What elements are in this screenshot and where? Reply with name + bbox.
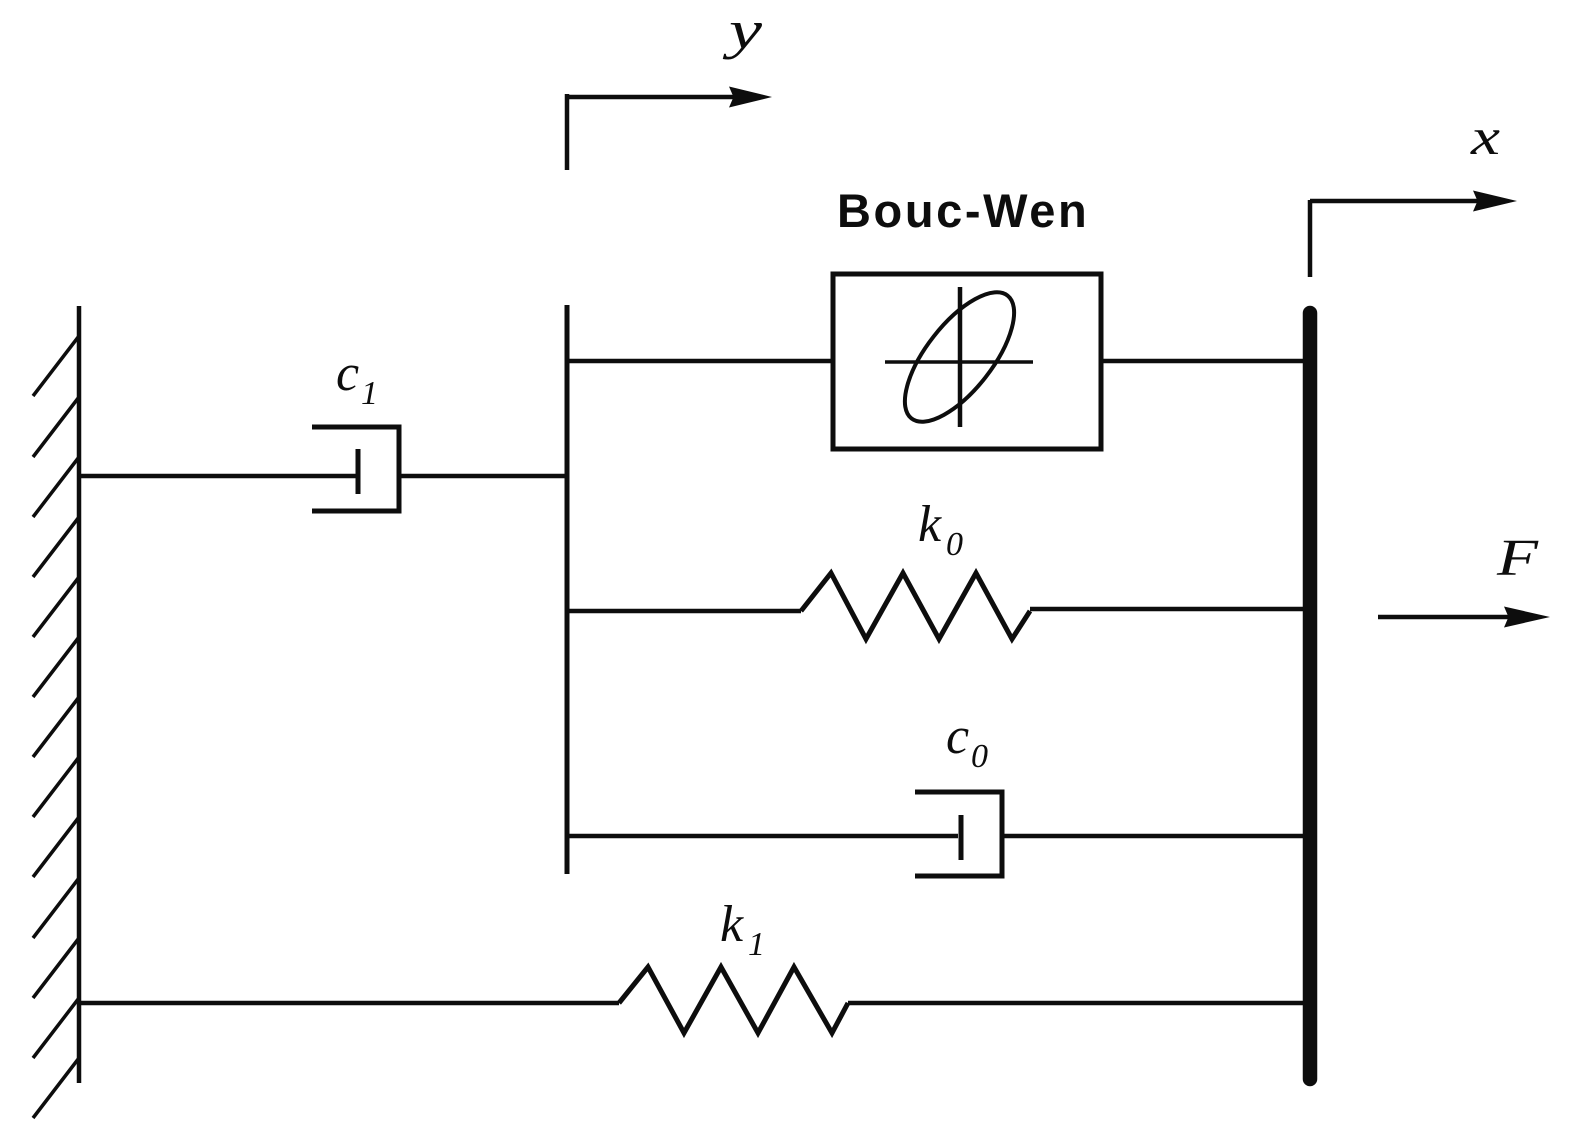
svg-text:k: k [720,896,744,953]
svg-text:0: 0 [971,738,988,775]
svg-text:c: c [946,708,969,765]
svg-text:c: c [336,345,359,402]
svg-text:1: 1 [361,375,378,412]
svg-text:k: k [918,496,942,553]
svg-text:y: y [722,0,762,60]
svg-text:0: 0 [946,526,963,563]
svg-text:x: x [1470,109,1500,166]
svg-text:F: F [1496,530,1540,587]
svg-text:1: 1 [748,926,765,963]
svg-text:Bouc-Wen: Bouc-Wen [837,184,1089,237]
